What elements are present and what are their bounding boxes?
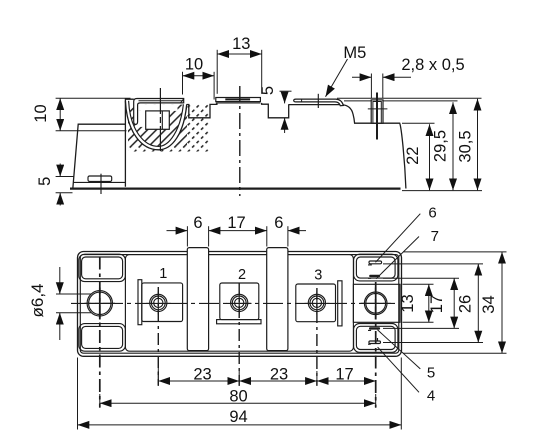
svg-text:22: 22: [404, 147, 422, 165]
svg-text:29,5: 29,5: [431, 130, 449, 162]
svg-text:5: 5: [259, 86, 277, 95]
svg-text:5: 5: [427, 365, 435, 382]
svg-text:17: 17: [428, 295, 446, 313]
svg-text:6: 6: [274, 214, 283, 232]
svg-text:13: 13: [399, 294, 417, 312]
svg-text:6: 6: [428, 205, 436, 222]
svg-text:13: 13: [232, 35, 250, 53]
svg-text:4: 4: [427, 387, 435, 404]
svg-text:26: 26: [456, 295, 474, 313]
svg-text:7: 7: [431, 228, 439, 245]
svg-text:10: 10: [185, 56, 203, 74]
svg-text:23: 23: [270, 365, 288, 383]
svg-text:ø6,4: ø6,4: [28, 283, 47, 317]
svg-text:3: 3: [314, 268, 322, 284]
svg-text:34: 34: [480, 295, 498, 313]
svg-text:80: 80: [229, 388, 247, 406]
svg-text:1: 1: [159, 266, 167, 282]
svg-text:23: 23: [193, 365, 211, 383]
svg-text:17: 17: [335, 365, 353, 383]
svg-text:2,8 x 0,5: 2,8 x 0,5: [401, 56, 464, 74]
svg-text:30,5: 30,5: [457, 130, 475, 162]
svg-text:5: 5: [36, 177, 54, 186]
svg-text:17: 17: [227, 214, 245, 232]
svg-text:10: 10: [32, 104, 50, 122]
svg-text:2: 2: [238, 267, 246, 283]
svg-text:94: 94: [229, 408, 247, 426]
svg-text:6: 6: [193, 214, 202, 232]
